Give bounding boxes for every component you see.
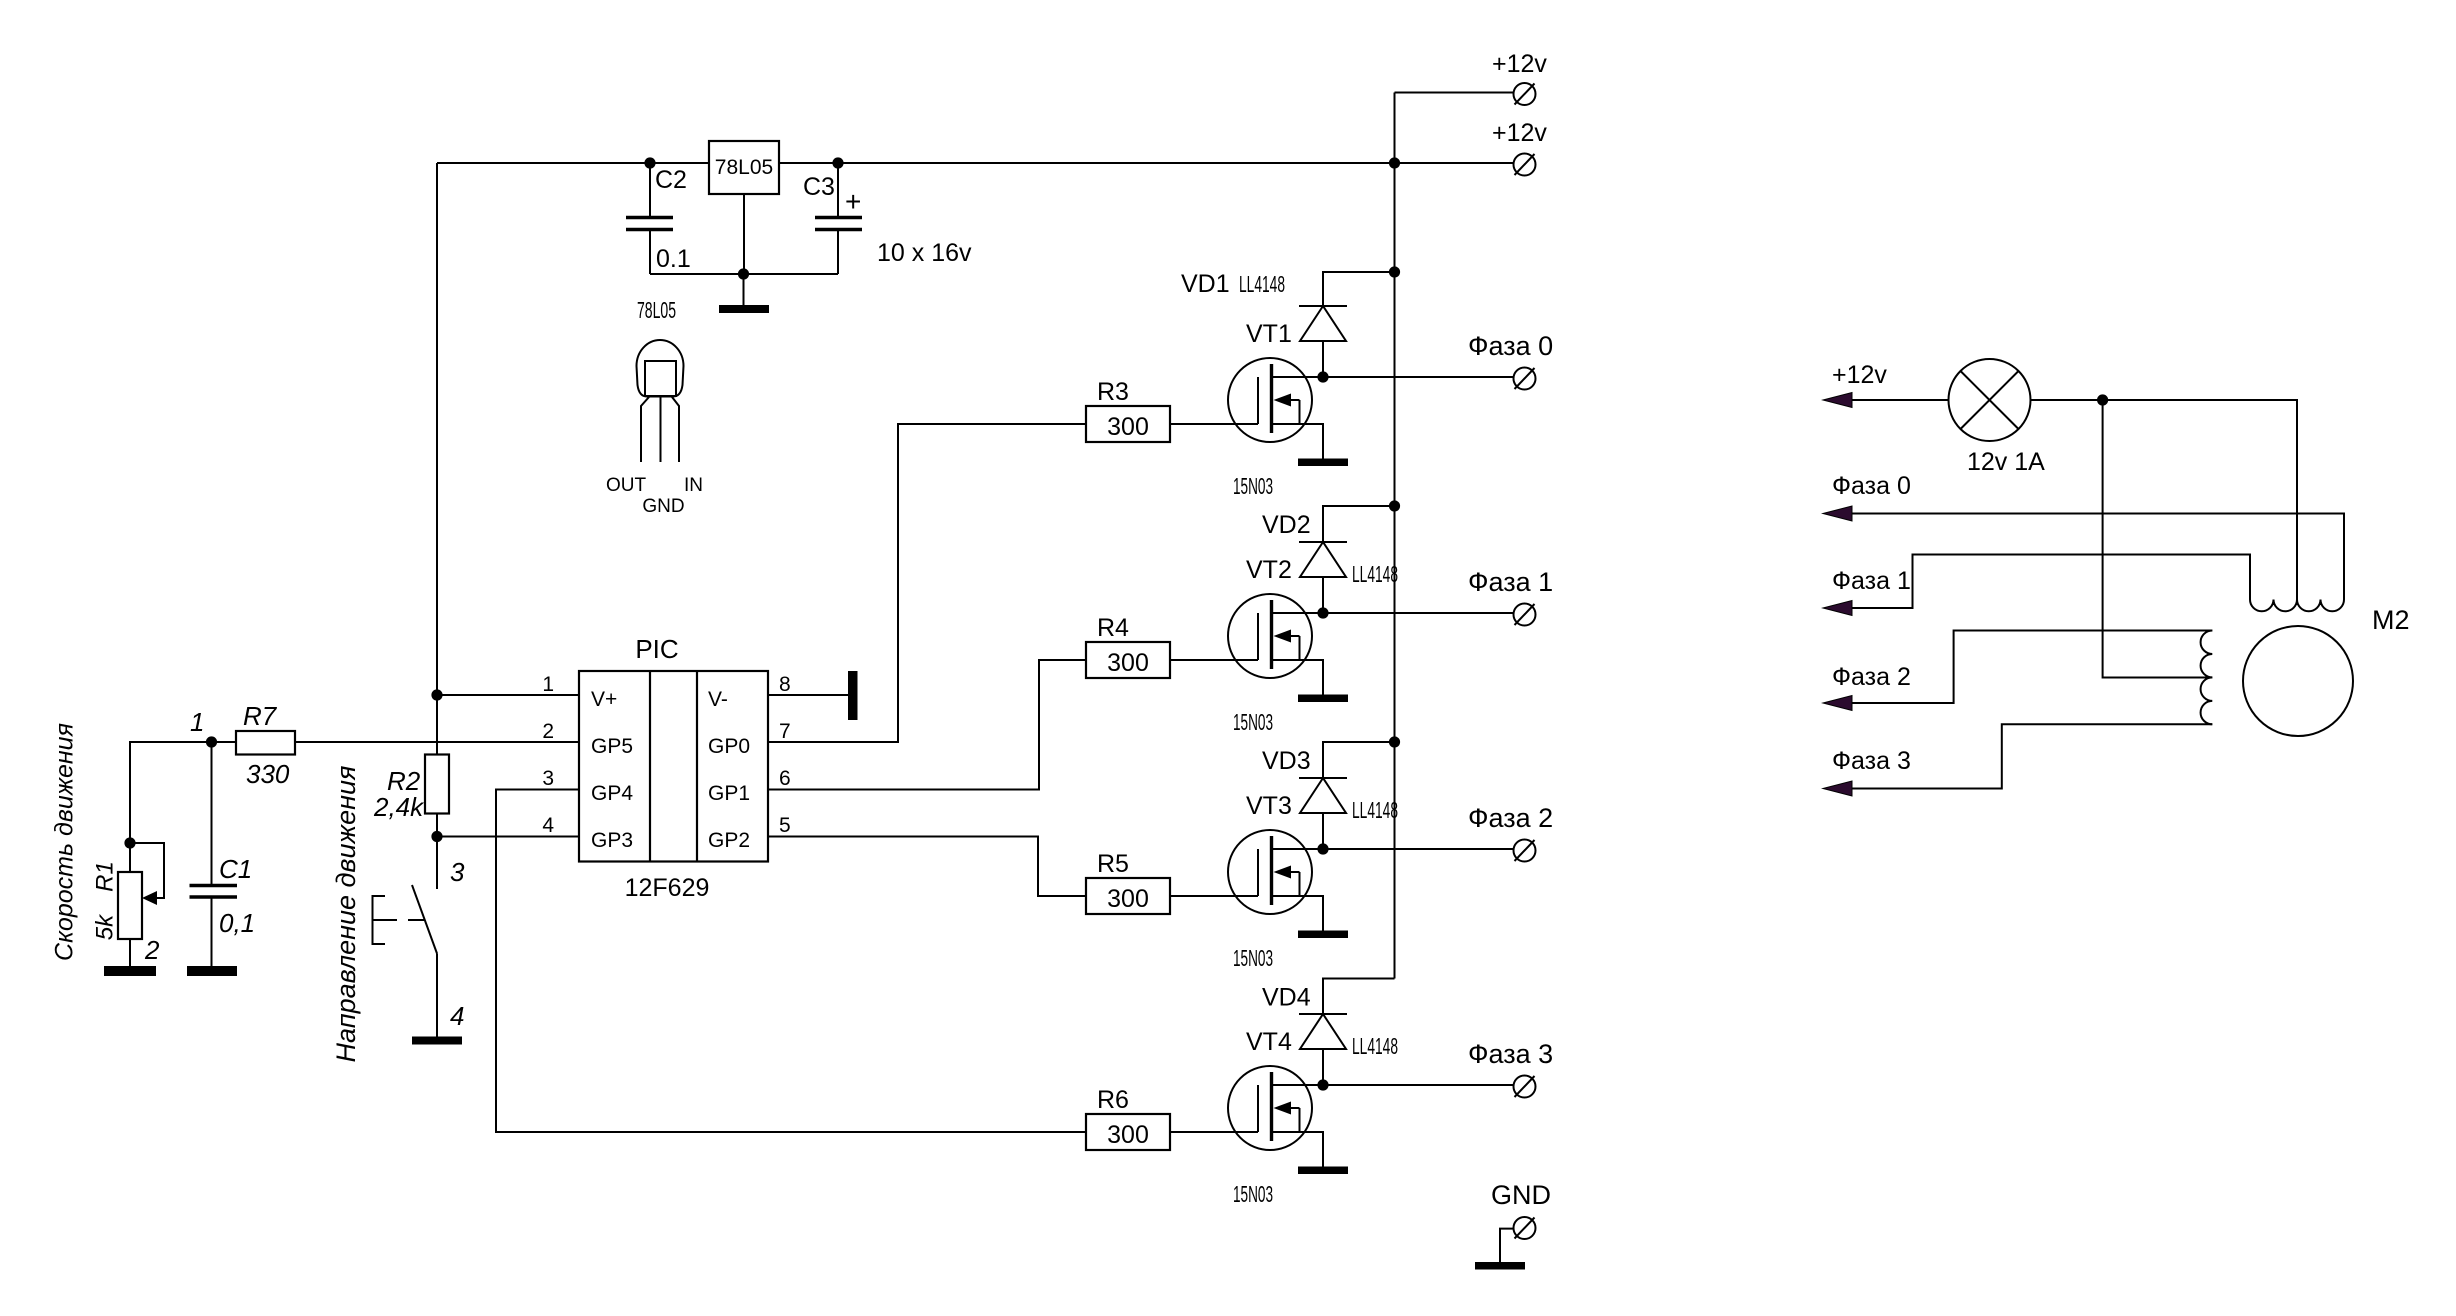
svg-text:VT4: VT4 [1246, 1028, 1292, 1056]
wire R6 to gate [1170, 1131, 1258, 1133]
svg-text:330: 330 [246, 759, 290, 789]
svg-text:GP5: GP5 [591, 735, 633, 758]
wire pin7 GP0 to R3 [768, 424, 1086, 742]
ground (VT2) [1298, 695, 1348, 703]
wire 78L05 IN to +12v bus [779, 162, 1395, 164]
wire pin1 V+ [437, 694, 579, 696]
svg-text:Фаза 2: Фаза 2 [1468, 803, 1553, 833]
voltage regulator U2 78L05 [709, 141, 779, 194]
resistor R4 300 [1086, 614, 1170, 678]
node lamp output junction [2097, 394, 2108, 405]
wire bus to VD3 cathode [1323, 742, 1395, 778]
wire Фаза 0 to winding [1852, 514, 2344, 600]
wire Фаза 1 output [1323, 612, 1514, 614]
svg-text:VT2: VT2 [1246, 556, 1292, 584]
svg-text:8: 8 [779, 673, 791, 696]
svg-text:6: 6 [779, 767, 791, 790]
node drain VT3 [1317, 843, 1328, 854]
svg-text:V+: V+ [591, 688, 617, 711]
svg-text:LL4148: LL4148 [1352, 561, 1398, 587]
wire GND terminal to ground [1500, 1229, 1514, 1262]
ground (regulator) [719, 305, 769, 313]
ground (VT1) [1298, 459, 1348, 467]
wire pin8 V- to ground [768, 694, 848, 696]
wire +12v bus vertical [1394, 93, 1396, 979]
svg-text:78L05: 78L05 [715, 156, 773, 179]
diode VD3 LL4148 [1299, 778, 1347, 849]
svg-text:R5: R5 [1097, 850, 1129, 878]
node R1 top / wiper junction [124, 837, 135, 848]
potentiometer R1 5k [92, 843, 165, 966]
svg-text:7: 7 [779, 720, 791, 743]
svg-text:GND: GND [1491, 1180, 1551, 1210]
arrow Фаза 2 [1823, 696, 1852, 711]
transistor VT2 15N03 MOSFET [1228, 594, 1323, 695]
svg-text:Направление движения: Направление движения [331, 766, 361, 1063]
wire bus to VD1 cathode [1323, 272, 1395, 306]
wire Фаза 2 output [1323, 848, 1514, 850]
terminal Фаза 2 [1514, 840, 1536, 862]
terminal Фаза 3 [1514, 1076, 1536, 1098]
svg-text:VT3: VT3 [1246, 792, 1292, 820]
terminal GND [1514, 1217, 1536, 1239]
svg-text:1: 1 [542, 673, 554, 696]
svg-text:R6: R6 [1097, 1086, 1129, 1114]
svg-text:5: 5 [779, 814, 791, 837]
wire Фаза 3 output [1323, 1084, 1514, 1086]
transistor VT1 15N03 MOSFET [1228, 358, 1323, 459]
wire to winding center tap (bottom) [2103, 400, 2213, 678]
microcontroller U1 PIC 12F629 [579, 634, 768, 902]
svg-text:GP3: GP3 [591, 829, 633, 852]
wire Фаза 3 to winding [1852, 724, 2212, 788]
svg-text:V-: V- [708, 688, 728, 711]
arrow +12v [1823, 393, 1852, 408]
terminal Фаза 1 [1514, 604, 1536, 626]
motor M2 rotor [2243, 626, 2353, 736]
inductor winding A (horizontal, top) [2250, 600, 2344, 612]
svg-text:IN: IN [684, 475, 703, 496]
wire pin3 GP4 to R6 [496, 790, 1086, 1133]
capacitor C2 0.1 [626, 163, 691, 274]
wire 78L05 GND pin down [743, 194, 745, 274]
node pin1 junction [431, 689, 442, 700]
node drain VT2 [1317, 607, 1328, 618]
inductor winding B (vertical) [2201, 631, 2213, 725]
capacitor C1 0,1 [190, 742, 256, 966]
svg-text:Фаза 1: Фаза 1 [1832, 567, 1911, 595]
svg-text:C2: C2 [655, 166, 687, 194]
svg-text:+: + [845, 186, 861, 217]
wire pin4 GP3 [437, 836, 579, 838]
wire pin5 GP2 to R5 [768, 837, 1086, 897]
transistor VT3 15N03 MOSFET [1228, 830, 1323, 931]
node bus/rail junction [1389, 157, 1400, 168]
svg-text:PIC: PIC [635, 634, 678, 664]
svg-text:Фаза 0: Фаза 0 [1468, 331, 1553, 361]
svg-text:GND: GND [642, 496, 684, 517]
svg-text:R4: R4 [1097, 614, 1129, 642]
svg-text:+12v: +12v [1492, 50, 1547, 78]
node pin4 junction [431, 831, 442, 842]
svg-text:GP4: GP4 [591, 782, 633, 805]
ground (GND terminal) [1475, 1262, 1525, 1270]
svg-text:1: 1 [190, 707, 204, 737]
svg-text:Скорость движения: Скорость движения [51, 723, 79, 961]
ground (switch) [412, 1037, 462, 1045]
svg-text:2,4k: 2,4k [373, 792, 425, 822]
svg-text:3: 3 [542, 767, 554, 790]
svg-text:300: 300 [1107, 885, 1149, 913]
node C3/rail junction [832, 157, 843, 168]
arrow Фаза 0 [1823, 506, 1852, 521]
svg-text:VD3: VD3 [1262, 747, 1311, 775]
svg-text:Фаза 2: Фаза 2 [1832, 663, 1911, 691]
svg-text:R1: R1 [92, 861, 119, 892]
svg-text:LL4148: LL4148 [1352, 1033, 1398, 1059]
transistor VT4 15N03 MOSFET [1228, 1066, 1323, 1167]
resistor R3 300 [1086, 378, 1170, 442]
svg-text:GP2: GP2 [708, 829, 750, 852]
wire to +12v terminal 2 [1395, 162, 1514, 164]
svg-text:Фаза 3: Фаза 3 [1832, 747, 1911, 775]
terminal +12v (2) [1514, 154, 1536, 176]
resistor R6 300 [1086, 1086, 1170, 1150]
wire R7 to PIC pin2 GP5 [295, 741, 579, 743]
svg-text:2: 2 [144, 935, 160, 965]
switch SA1 (direction) [373, 837, 466, 1037]
terminal Фаза 0 [1514, 368, 1536, 390]
svg-text:Фаза 3: Фаза 3 [1468, 1039, 1553, 1069]
wire R3 to gate [1170, 423, 1258, 425]
wire to ground [743, 274, 745, 305]
wire Фаза 2 to winding [1852, 631, 2212, 704]
node bus branch VD1 [1389, 266, 1400, 277]
wire bus to VD4 cathode [1323, 979, 1395, 1015]
svg-text:15N03: 15N03 [1233, 1181, 1273, 1207]
node bus branch VD3 [1389, 736, 1400, 747]
wire capacitor bottoms to ground [650, 273, 838, 275]
capacitor C3 10x16v [803, 163, 972, 274]
arrow Фаза 3 [1823, 781, 1852, 796]
svg-text:Фаза 1: Фаза 1 [1468, 567, 1553, 597]
resistor R2 2,4k [373, 755, 449, 823]
svg-text:15N03: 15N03 [1233, 709, 1273, 735]
svg-text:3: 3 [450, 857, 465, 887]
svg-text:0.1: 0.1 [656, 245, 691, 273]
node C2/rail junction [644, 157, 655, 168]
svg-text:2: 2 [542, 720, 554, 743]
wire node1 to R1 top [130, 742, 212, 843]
svg-text:12v 1A: 12v 1A [1967, 448, 2045, 476]
ground (R1) [104, 966, 156, 976]
node drain VT1 [1317, 371, 1328, 382]
wire left bus from rail to R2 [436, 163, 438, 755]
arrow Фаза 1 [1823, 601, 1852, 616]
diode VD1 LL4148 [1299, 306, 1347, 377]
wire R5 to gate [1170, 895, 1258, 897]
svg-text:4: 4 [450, 1001, 464, 1031]
svg-text:300: 300 [1107, 649, 1149, 677]
svg-text:M2: M2 [2372, 605, 2410, 635]
svg-text:OUT: OUT [606, 475, 647, 496]
svg-text:VD1: VD1 [1181, 270, 1230, 298]
terminal +12v (1) [1514, 83, 1536, 105]
svg-text:VD4: VD4 [1262, 984, 1311, 1012]
svg-text:GP0: GP0 [708, 735, 750, 758]
svg-text:300: 300 [1107, 1121, 1149, 1149]
svg-text:VD2: VD2 [1262, 511, 1311, 539]
svg-text:R7: R7 [243, 701, 278, 731]
node drain VT4 [1317, 1079, 1328, 1090]
svg-text:5k: 5k [92, 913, 119, 940]
wire 5v rail: left corner to 78L05 OUT [437, 162, 709, 164]
svg-text:C1: C1 [219, 854, 252, 884]
svg-text:10 x 16v: 10 x 16v [877, 239, 972, 267]
node bus branch VD2 [1389, 500, 1400, 511]
svg-text:300: 300 [1107, 413, 1149, 441]
svg-text:GP1: GP1 [708, 782, 750, 805]
wire Фаза 1 to winding [1852, 555, 2250, 609]
wire lamp to winding center tap (top) [2031, 400, 2298, 600]
diode VD4 LL4148 [1299, 1014, 1347, 1085]
svg-text:+12v: +12v [1492, 119, 1547, 147]
diode VD2 LL4148 [1299, 542, 1347, 613]
wire to +12v terminal 1 [1395, 92, 1514, 94]
svg-text:R3: R3 [1097, 378, 1129, 406]
wire pin6 GP1 to R4 [768, 660, 1086, 790]
svg-text:78L05: 78L05 [637, 297, 676, 323]
svg-text:15N03: 15N03 [1233, 945, 1273, 971]
resistor R5 300 [1086, 850, 1170, 914]
svg-text:4: 4 [542, 814, 554, 837]
svg-text:Фаза 0: Фаза 0 [1832, 472, 1911, 500]
svg-text:VT1: VT1 [1246, 320, 1292, 348]
node ground junction [738, 268, 749, 279]
78L05 package drawing (TO-92) [606, 297, 703, 517]
wire R4 to gate [1170, 659, 1258, 661]
wire R2 bottom to node [436, 814, 438, 837]
wire Фаза 0 output [1323, 376, 1514, 378]
svg-text:LL4148: LL4148 [1352, 797, 1398, 823]
svg-text:+12v: +12v [1832, 361, 1887, 389]
lamp HL1 12v 1A [1949, 359, 2046, 476]
resistor R7 330 [212, 701, 296, 789]
svg-text:15N03: 15N03 [1233, 473, 1273, 499]
wire bus to VD2 cathode [1323, 506, 1395, 542]
ground (pin8) [848, 671, 858, 720]
svg-text:12F629: 12F629 [625, 874, 710, 902]
wire +12v to lamp [1852, 399, 1949, 401]
svg-text:LL4148: LL4148 [1239, 271, 1285, 297]
svg-text:0,1: 0,1 [219, 908, 255, 938]
ground (C1) [187, 966, 237, 976]
ground (VT4) [1298, 1167, 1348, 1175]
svg-text:C3: C3 [803, 173, 835, 201]
ground (VT3) [1298, 931, 1348, 939]
